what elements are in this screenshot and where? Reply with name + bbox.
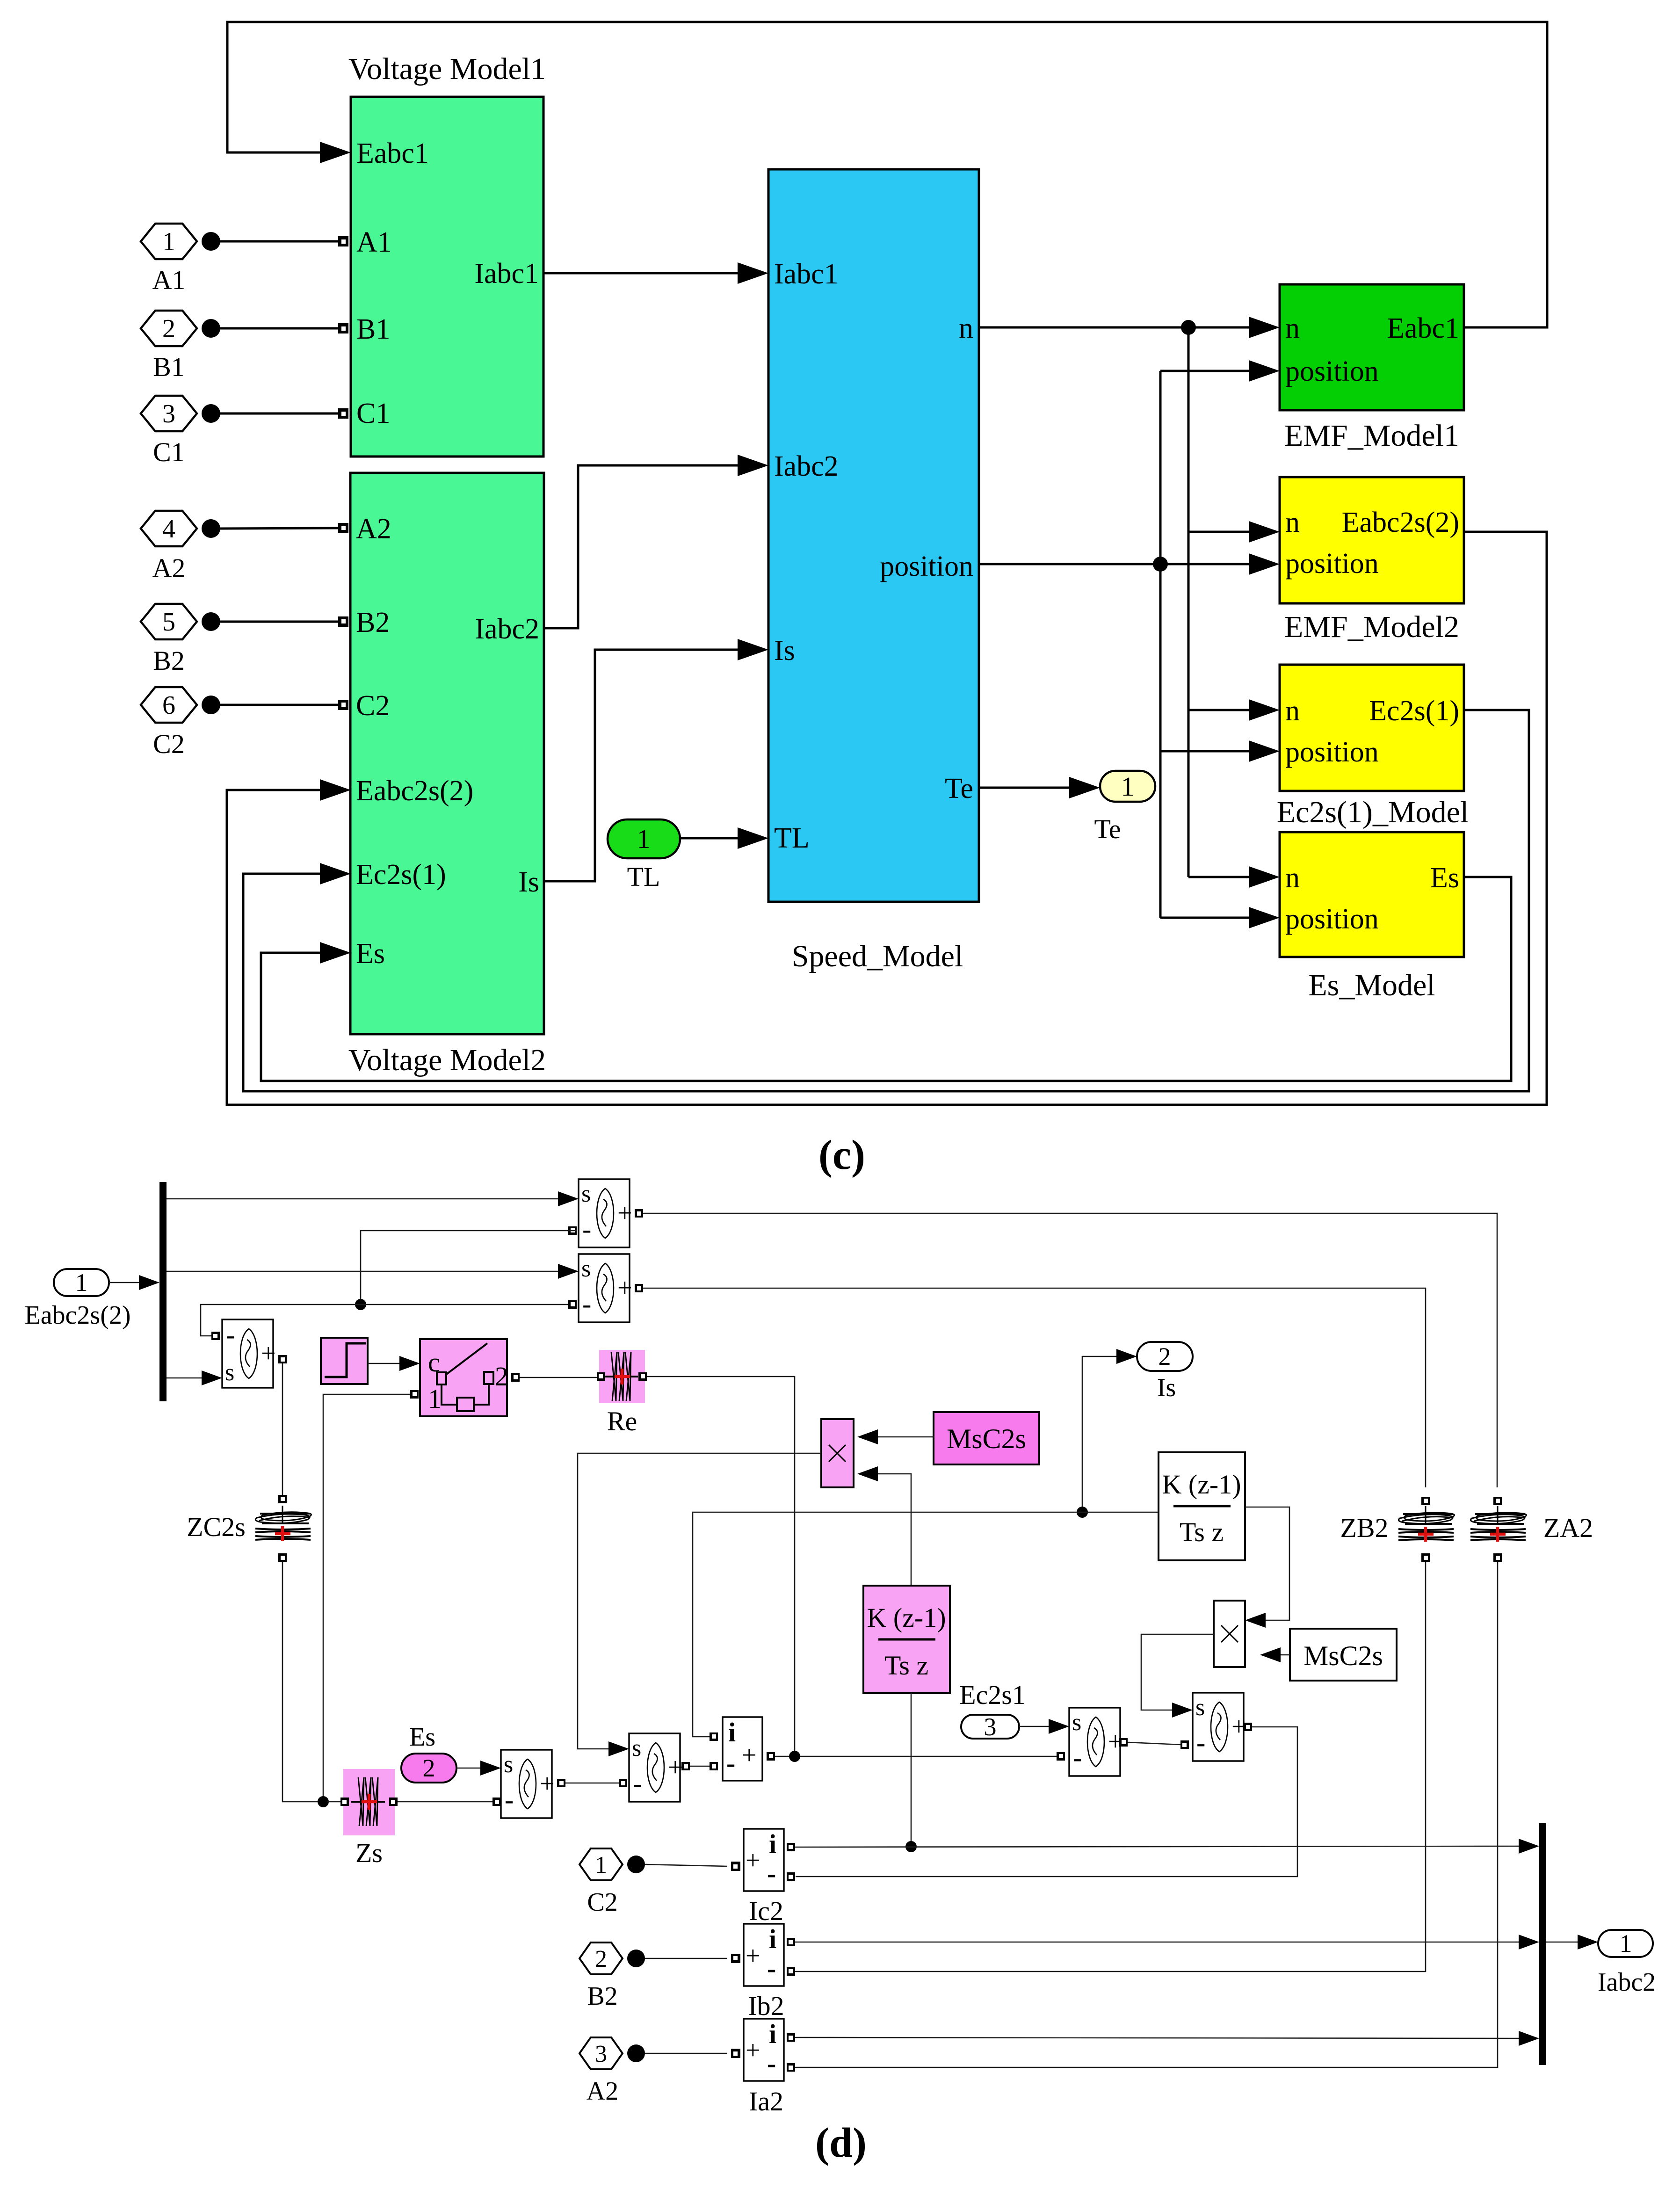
current source block Ia2 bbox=[744, 2019, 784, 2081]
subsystem block EMF_Model1 bbox=[1280, 284, 1464, 410]
svg-text:K (z-1): K (z-1) bbox=[1162, 1469, 1241, 1500]
subsystem block Voltage Model2 bbox=[350, 473, 544, 1034]
svg-text:+: + bbox=[742, 1741, 757, 1770]
wire Te Speed_Model to outport bbox=[979, 787, 1083, 789]
svg-text:Voltage Model1: Voltage Model1 bbox=[348, 52, 546, 86]
svg-text:Eabc1: Eabc1 bbox=[1387, 312, 1459, 344]
svg-text:MsC2s: MsC2s bbox=[947, 1423, 1026, 1454]
port square Ib2 i bbox=[787, 1938, 795, 1946]
svg-text:s: s bbox=[225, 1359, 234, 1386]
feedback wire Eabc1 EMF_Model1 to Voltage Model1 bbox=[227, 22, 1547, 327]
wire junction to Zs bbox=[327, 1801, 340, 1803]
svg-text:Eabc2s(2): Eabc2s(2) bbox=[24, 1301, 130, 1330]
port square B2 bbox=[338, 616, 348, 627]
outport oval Te bbox=[1100, 771, 1155, 802]
inport oval Eabc2s(2) bbox=[54, 1268, 109, 1297]
svg-text:-: - bbox=[726, 1748, 735, 1778]
svg-text:A2: A2 bbox=[356, 513, 391, 545]
inport 6 C2 bbox=[141, 687, 197, 723]
inport 1 A1 bbox=[141, 224, 197, 259]
junction dot Is tap bbox=[1077, 1507, 1088, 1518]
mux bar output bbox=[1539, 1823, 1546, 2065]
svg-text:2: 2 bbox=[1159, 1342, 1171, 1370]
wire n to EMF_Model2 bbox=[1188, 531, 1260, 533]
wire Es oval to CVS4 s bbox=[456, 1768, 486, 1769]
junction dot position trunk bbox=[1153, 557, 1168, 572]
svg-text:Voltage Model2: Voltage Model2 bbox=[348, 1043, 546, 1077]
svg-text:i: i bbox=[769, 2019, 776, 2049]
junction dot n trunk bbox=[1181, 320, 1196, 335]
wire CVS-B + down to Ic2 minus bbox=[1244, 1723, 1252, 1731]
wire Iabc1 Voltage Model1 to Speed_Model bbox=[543, 272, 748, 275]
wire Zs to CVS4 minus bbox=[398, 1801, 492, 1803]
wire Ib2 - to ZB2 bottom bbox=[795, 1562, 1426, 1972]
inport 2 B1 bbox=[141, 311, 197, 346]
svg-text:Zs: Zs bbox=[355, 1838, 383, 1868]
neutral net wire to CVS1 CVS2 CVS3 minus bbox=[568, 1226, 577, 1235]
svg-text:1: 1 bbox=[428, 1384, 442, 1414]
port square CVS2 minus bbox=[568, 1300, 577, 1309]
wire switch input 1 from Zs junction bbox=[410, 1390, 419, 1399]
wire Ib2 i to mux input 2 bbox=[795, 1942, 1520, 1943]
junction dot A2 bbox=[627, 2044, 645, 2062]
wire current measure i to K(z-1)/Tsz white bbox=[693, 1512, 1159, 1737]
svg-text:+: + bbox=[540, 1769, 555, 1798]
svg-text:MsC2s: MsC2s bbox=[1303, 1640, 1383, 1671]
svg-text:4: 4 bbox=[162, 515, 175, 544]
wire K white output to multiply white input 1 bbox=[1245, 1507, 1289, 1620]
svg-text:A2: A2 bbox=[152, 553, 186, 583]
svg-text:Es: Es bbox=[356, 938, 385, 970]
feedback wire Ec2s(1) Ec2s(1)_Model to Voltage Model2 bbox=[243, 710, 1529, 1091]
controlled voltage source CVS-A bbox=[1069, 1708, 1123, 1776]
svg-text:2: 2 bbox=[595, 1946, 607, 1972]
svg-text:s: s bbox=[1072, 1709, 1081, 1736]
svg-text:n: n bbox=[1285, 695, 1300, 727]
junction dot at inport A1 bbox=[202, 232, 220, 251]
junction dot B2 bbox=[627, 1950, 645, 1967]
svg-text:n: n bbox=[1285, 862, 1300, 894]
wire B2 to Voltage Model2 bbox=[220, 621, 339, 623]
svg-text:n: n bbox=[1285, 312, 1300, 344]
wire step to switch c bbox=[368, 1363, 405, 1364]
port square A2 bbox=[338, 523, 348, 533]
svg-text:Ic2: Ic2 bbox=[749, 1896, 783, 1926]
wire CVS2 + to ZB2 top bbox=[635, 1284, 643, 1292]
demux bar bbox=[159, 1182, 167, 1401]
inport hexagon 3 A2 bbox=[579, 2037, 623, 2069]
wire K(z-1) magenta bottom to Ic2 i line bbox=[911, 1693, 912, 1847]
svg-text:C2: C2 bbox=[356, 690, 390, 722]
wire C1 to Voltage Model1 bbox=[220, 413, 339, 415]
port square Ib2 - bbox=[787, 1967, 795, 1976]
wire position to Es_Model bbox=[1160, 917, 1260, 919]
subsystem block Voltage Model1 bbox=[351, 97, 543, 457]
port square CVS-A minus bbox=[1057, 1752, 1065, 1761]
svg-text:2: 2 bbox=[495, 1361, 508, 1392]
svg-text:i: i bbox=[769, 1924, 776, 1954]
svg-text:+: + bbox=[261, 1339, 276, 1368]
svg-text:Es: Es bbox=[1430, 862, 1459, 894]
svg-text:Re: Re bbox=[607, 1406, 637, 1436]
svg-text:1: 1 bbox=[1121, 771, 1135, 802]
svg-text:B2: B2 bbox=[356, 607, 390, 638]
junction dot Zs input bbox=[318, 1796, 329, 1807]
impedance block Re bbox=[599, 1350, 645, 1403]
svg-text:A2: A2 bbox=[587, 2077, 618, 2106]
port square C1 bbox=[338, 408, 348, 419]
svg-text:1: 1 bbox=[637, 824, 651, 854]
wire Ia2 i to mux input 3 bbox=[795, 2037, 1520, 2038]
svg-text:ZC2s: ZC2s bbox=[187, 1512, 246, 1542]
svg-text:Is: Is bbox=[774, 635, 795, 667]
svg-text:+: + bbox=[746, 2036, 760, 2065]
svg-text:A1: A1 bbox=[152, 265, 186, 295]
wire multiply white output to CVS-B s bbox=[1141, 1634, 1214, 1710]
svg-text:EMF_Model2: EMF_Model2 bbox=[1284, 610, 1459, 644]
wire Is tap bbox=[1082, 1356, 1122, 1512]
junction dot Re to measure output bbox=[789, 1751, 800, 1762]
svg-text:s: s bbox=[632, 1735, 641, 1761]
wire switch output to Re bbox=[511, 1373, 520, 1382]
current measurement block bbox=[723, 1717, 762, 1781]
svg-text:n: n bbox=[1285, 507, 1300, 538]
current source block Ib2 bbox=[744, 1924, 784, 1986]
svg-text:1: 1 bbox=[1620, 1929, 1632, 1957]
constant block MsC2s (white) bbox=[1290, 1629, 1397, 1681]
wire MsC2s to multiply input 1 bbox=[872, 1436, 934, 1438]
svg-text:Ia2: Ia2 bbox=[749, 2086, 783, 2117]
subsystem block Speed_Model bbox=[768, 169, 979, 902]
wire C2 to Ic2 bbox=[645, 1864, 727, 1866]
controlled voltage source CVS2 bbox=[579, 1254, 632, 1322]
inport hexagon 1 C2 bbox=[579, 1848, 623, 1880]
port square current measure i bbox=[710, 1732, 718, 1741]
svg-text:position: position bbox=[880, 551, 973, 582]
junction dot C2 bbox=[627, 1856, 645, 1873]
wire MsC2s white to multiply white input 2 bbox=[1275, 1654, 1290, 1656]
svg-text:1: 1 bbox=[595, 1852, 607, 1878]
svg-text:3: 3 bbox=[984, 1713, 997, 1741]
port square CVS3 minus bbox=[211, 1332, 220, 1340]
port square B1 bbox=[338, 323, 348, 333]
svg-text:+: + bbox=[668, 1753, 683, 1782]
wire multiply output to CVS5 s bbox=[578, 1453, 821, 1749]
port square Ic2 - bbox=[787, 1872, 795, 1881]
svg-text:3: 3 bbox=[162, 399, 175, 428]
controlled voltage source CVS3 bbox=[222, 1319, 276, 1388]
wire CVS1 + to ZA2 top bbox=[635, 1209, 643, 1218]
controlled voltage source CVS5 bbox=[629, 1733, 683, 1802]
svg-text:n: n bbox=[959, 312, 973, 344]
wire n to Ec2s(1)_Model bbox=[1188, 709, 1260, 711]
junction dot on Ic2 i wire bbox=[905, 1841, 917, 1852]
svg-text:+: + bbox=[746, 1846, 760, 1875]
svg-text:-: - bbox=[633, 1768, 642, 1798]
port square Ic2 i bbox=[787, 1843, 795, 1851]
svg-text:Is: Is bbox=[1157, 1373, 1176, 1402]
svg-text:Iabc2: Iabc2 bbox=[1598, 1968, 1656, 1997]
wire K(z-1) magenta to multiply input 2 bbox=[872, 1474, 911, 1586]
wire Ia2 - to ZA2 bottom bbox=[795, 1562, 1498, 2067]
svg-text:ZB2: ZB2 bbox=[1340, 1513, 1388, 1543]
svg-text:s: s bbox=[581, 1255, 591, 1282]
svg-text:C2: C2 bbox=[587, 1888, 617, 1917]
svg-text:B1: B1 bbox=[153, 352, 185, 382]
svg-text:Eabc1: Eabc1 bbox=[356, 138, 429, 169]
svg-text:-: - bbox=[505, 1784, 514, 1815]
svg-text:Is: Is bbox=[518, 866, 539, 898]
wire demux to CVS1 s bbox=[167, 1198, 564, 1200]
junction dot at inport B2 bbox=[202, 612, 220, 631]
svg-text:s: s bbox=[581, 1181, 591, 1207]
svg-text:+: + bbox=[617, 1274, 632, 1303]
subsystem block Ec2s(1)_Model bbox=[1280, 665, 1464, 791]
svg-text:-: - bbox=[1073, 1742, 1082, 1773]
svg-text:Ec2s(1): Ec2s(1) bbox=[1369, 695, 1459, 727]
junction dot at inport C2 bbox=[202, 696, 220, 714]
svg-text:Te: Te bbox=[1094, 814, 1121, 844]
wire position Speed_Model trunk bbox=[979, 563, 1260, 565]
svg-text:+: + bbox=[746, 1942, 760, 1971]
svg-text:Iabc2: Iabc2 bbox=[475, 613, 539, 645]
outport oval Is bbox=[1137, 1342, 1193, 1371]
discrete derivative block K(z-1)/Tsz (white) bbox=[1159, 1452, 1245, 1560]
wire Is Voltage Model2 to Speed_Model bbox=[544, 650, 748, 881]
svg-text:Ec2s(1): Ec2s(1) bbox=[356, 859, 446, 891]
wire CVS5 + to current measure block bbox=[681, 1762, 690, 1770]
wire demux to CVS3 s bbox=[167, 1377, 207, 1379]
constant block MsC2s (magenta) bbox=[934, 1412, 1039, 1464]
svg-text:B2: B2 bbox=[153, 645, 185, 676]
wire neutral to CVS3 minus bbox=[201, 1305, 361, 1336]
svg-text:C1: C1 bbox=[356, 398, 390, 429]
svg-text:A1: A1 bbox=[356, 226, 392, 258]
svg-text:(d): (d) bbox=[815, 2120, 867, 2166]
svg-text:s: s bbox=[1195, 1694, 1205, 1721]
wire CVS3 + down through ZC2s to Zs junction bbox=[278, 1355, 287, 1363]
wire Iabc2 Voltage Model2 to Speed_Model bbox=[544, 465, 748, 628]
svg-text:(c): (c) bbox=[818, 1132, 865, 1178]
svg-text:Iabc1: Iabc1 bbox=[474, 258, 539, 290]
svg-text:Eabc2s(2): Eabc2s(2) bbox=[1342, 507, 1459, 538]
inport oval TL bbox=[608, 819, 680, 858]
wire n to Es_Model bbox=[1188, 876, 1260, 878]
wire Ec2s1 to CVS-A s bbox=[1019, 1726, 1054, 1727]
svg-text:position: position bbox=[1285, 355, 1379, 387]
wire Ic2 i to mux input 1 bbox=[795, 1846, 1520, 1847]
svg-text:-: - bbox=[582, 1289, 591, 1319]
svg-text:1: 1 bbox=[162, 227, 175, 256]
svg-text:6: 6 bbox=[162, 691, 175, 720]
svg-text:2: 2 bbox=[162, 314, 175, 343]
inport 4 A2 bbox=[141, 511, 197, 546]
svg-text:position: position bbox=[1285, 903, 1379, 935]
port square Ia2 + bbox=[731, 2049, 740, 2058]
wire CVS4 + to CVS5 minus bbox=[557, 1779, 565, 1787]
svg-text:Es: Es bbox=[409, 1723, 435, 1752]
wire A2 to Voltage Model2 bbox=[220, 528, 339, 529]
junction dot at inport A2 bbox=[202, 519, 220, 538]
svg-text:Ec2s1: Ec2s1 bbox=[959, 1680, 1026, 1710]
svg-text:ZA2: ZA2 bbox=[1543, 1513, 1593, 1543]
svg-text:Speed_Model: Speed_Model bbox=[792, 939, 963, 973]
outport oval Iabc2 bbox=[1598, 1929, 1653, 1957]
svg-text:C2: C2 bbox=[153, 729, 185, 759]
inport 3 C1 bbox=[141, 396, 197, 431]
svg-text:-: - bbox=[767, 1858, 776, 1889]
junction dot neutral net bbox=[355, 1299, 366, 1310]
svg-text:-: - bbox=[226, 1319, 235, 1350]
controlled voltage source CVS-B bbox=[1193, 1693, 1246, 1761]
svg-text:B2: B2 bbox=[587, 1982, 617, 2011]
multiply block (white) bbox=[1214, 1601, 1245, 1667]
inport hexagon 2 B2 bbox=[579, 1943, 623, 1974]
svg-text:5: 5 bbox=[162, 608, 175, 637]
svg-text:position: position bbox=[1285, 736, 1379, 768]
svg-text:i: i bbox=[728, 1717, 736, 1747]
controlled voltage source CVS1 bbox=[579, 1179, 632, 1247]
step source block bbox=[321, 1338, 368, 1384]
svg-text:Es_Model: Es_Model bbox=[1308, 968, 1435, 1002]
svg-text:3: 3 bbox=[595, 2041, 607, 2067]
wire demux to CVS2 s bbox=[167, 1271, 564, 1272]
wire position to EMF_Model1 bbox=[1160, 370, 1260, 372]
svg-text:-: - bbox=[767, 1953, 776, 1984]
wire Re to current-measure junction bbox=[647, 1377, 795, 1756]
svg-text:B1: B1 bbox=[356, 313, 390, 345]
wire Eabc2s(2) to demux bbox=[109, 1282, 145, 1283]
svg-text:Iabc1: Iabc1 bbox=[774, 258, 839, 290]
impedance glyph ZC2s bbox=[278, 1495, 287, 1503]
port square Ic2 + bbox=[731, 1862, 740, 1871]
port square Ia2 - bbox=[787, 2063, 795, 2072]
wire mux to Iabc2 oval bbox=[1546, 1942, 1582, 1943]
controlled voltage source CVS4 bbox=[501, 1750, 555, 1818]
impedance glyph ZB2 bbox=[1421, 1497, 1430, 1505]
svg-text:s: s bbox=[504, 1751, 513, 1778]
multiply block (magenta) bbox=[821, 1419, 854, 1487]
port square Ib2 + bbox=[731, 1954, 740, 1963]
svg-text:Ts z: Ts z bbox=[884, 1650, 928, 1681]
svg-text:i: i bbox=[769, 1829, 776, 1859]
wire A2 to Ia2 bbox=[645, 2053, 727, 2054]
inport 5 B2 bbox=[141, 604, 197, 639]
wire n Speed_Model to EMF models trunk bbox=[979, 326, 1260, 329]
wire B1 to Voltage Model1 bbox=[220, 327, 339, 330]
svg-text:Te: Te bbox=[945, 773, 973, 805]
breaker switch block bbox=[420, 1339, 507, 1416]
svg-text:Ec2s(1)_Model: Ec2s(1)_Model bbox=[1277, 795, 1469, 829]
wire position to Ec2s(1)_Model bbox=[1160, 750, 1260, 753]
port square A1 bbox=[338, 236, 348, 246]
discrete derivative block K(z-1)/Tsz (magenta) bbox=[863, 1586, 950, 1693]
wire n trunk vertical bbox=[1188, 327, 1190, 877]
junction dot at inport B1 bbox=[202, 319, 220, 338]
wire position trunk vertical bbox=[1159, 371, 1162, 918]
svg-text:+: + bbox=[617, 1199, 632, 1228]
svg-text:TL: TL bbox=[627, 862, 660, 892]
svg-text:-: - bbox=[767, 2048, 776, 2079]
svg-text:K (z-1): K (z-1) bbox=[867, 1602, 946, 1633]
svg-text:position: position bbox=[1285, 548, 1379, 580]
port square Ia2 i bbox=[787, 2033, 795, 2042]
svg-text:-: - bbox=[1196, 1727, 1205, 1758]
wire C2 to Voltage Model2 bbox=[220, 704, 339, 706]
svg-text:Iabc2: Iabc2 bbox=[774, 450, 839, 482]
svg-text:Eabc2s(2): Eabc2s(2) bbox=[356, 775, 473, 807]
current source block Ic2 bbox=[744, 1829, 784, 1891]
svg-text:-: - bbox=[582, 1214, 591, 1244]
wire B2 to Ib2 bbox=[645, 1958, 727, 1959]
svg-text:C1: C1 bbox=[153, 437, 185, 467]
wire current measure + output to CVS-A minus bbox=[767, 1752, 775, 1761]
impedance glyph ZA2 bbox=[1493, 1497, 1502, 1505]
svg-text:TL: TL bbox=[774, 822, 810, 854]
svg-text:1: 1 bbox=[75, 1268, 88, 1297]
svg-text:2: 2 bbox=[423, 1754, 435, 1782]
wire CVS-A + to CVS-B minus bbox=[1119, 1738, 1128, 1747]
wire A1 to Voltage Model1 bbox=[220, 240, 339, 243]
svg-text:Ts z: Ts z bbox=[1180, 1517, 1224, 1547]
feedback wire Eabc2s(2) EMF_Model2 to Voltage Model2 bbox=[227, 532, 1547, 1105]
subsystem block Es_Model bbox=[1280, 832, 1464, 957]
outport oval Es (magenta) bbox=[401, 1754, 456, 1783]
svg-text:EMF_Model1: EMF_Model1 bbox=[1284, 419, 1459, 453]
junction dot at inport C1 bbox=[202, 404, 220, 423]
subsystem block EMF_Model2 bbox=[1280, 477, 1464, 603]
svg-text:Ib2: Ib2 bbox=[748, 1991, 784, 2021]
wire TL to Speed_Model bbox=[680, 837, 748, 840]
impedance block Zs bbox=[343, 1769, 395, 1835]
port square C2 bbox=[338, 700, 348, 710]
feedback wire Es Es_Model to Voltage Model2 bbox=[261, 877, 1511, 1081]
wire neutral to CVS2 minus bbox=[361, 1304, 568, 1305]
